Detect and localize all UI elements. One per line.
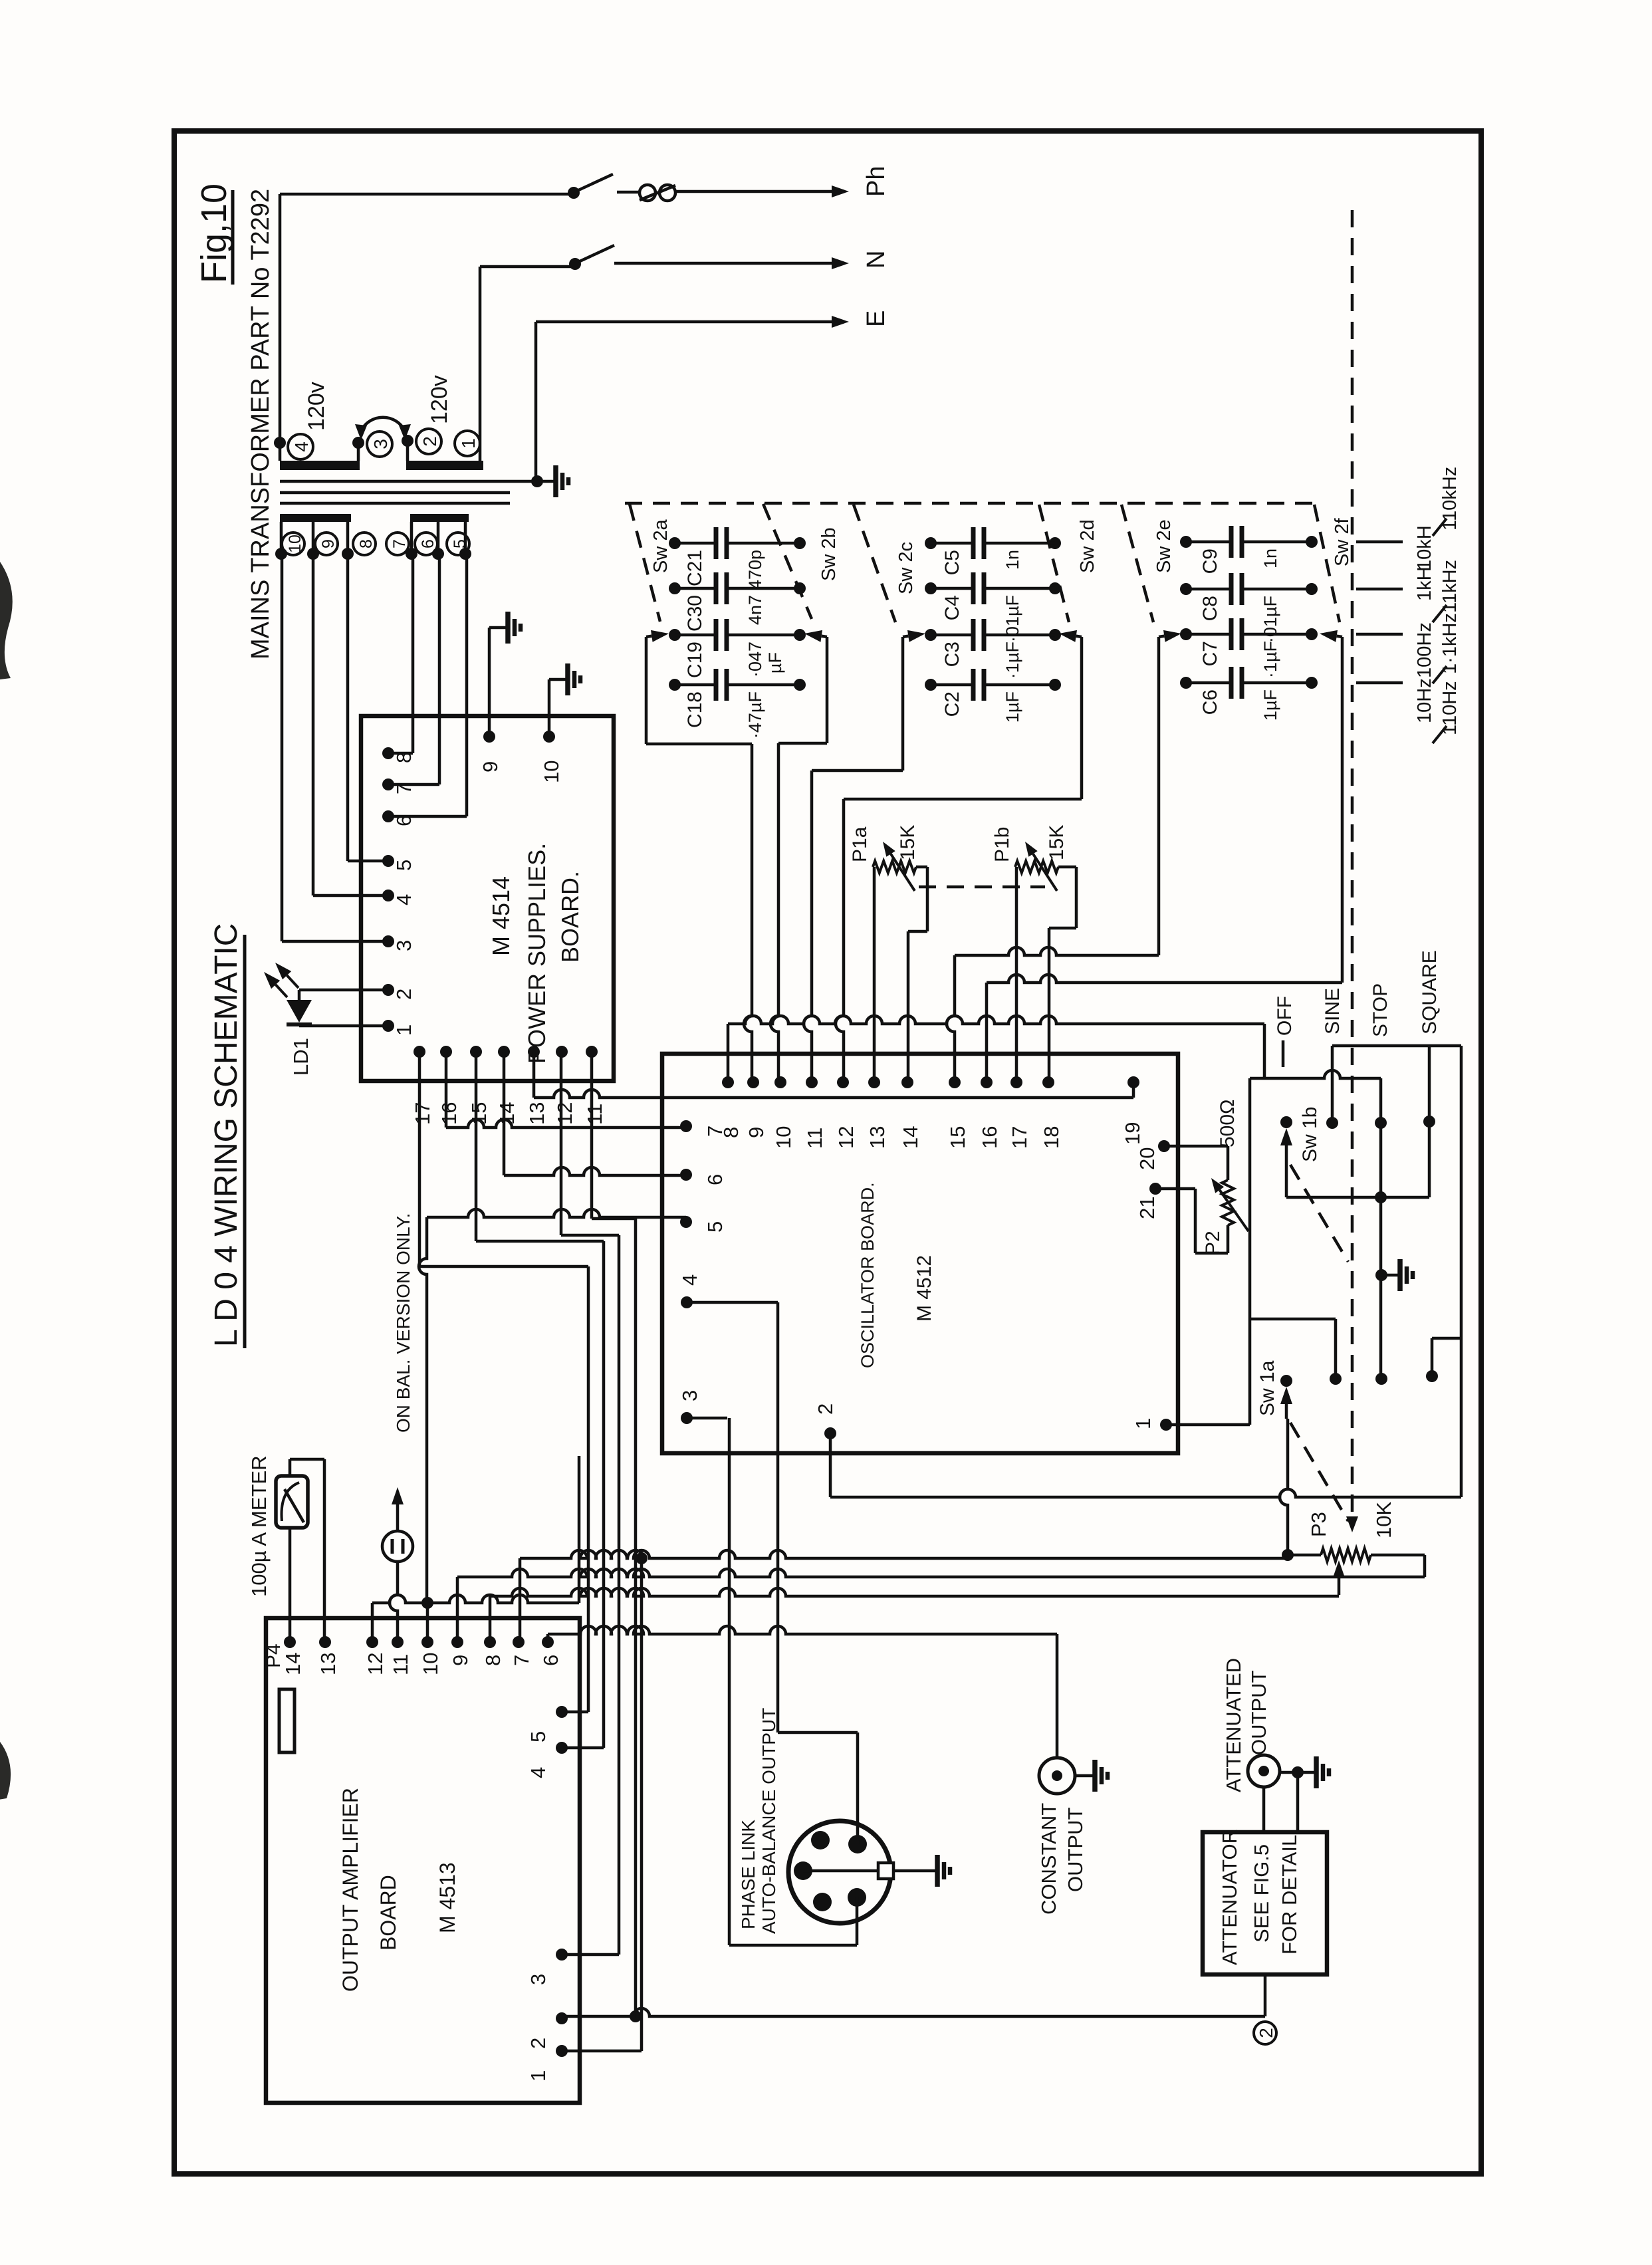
label Sw1b — [1299, 1107, 1321, 1162]
wire M4514 p17 to M4513 p5 — [419, 1052, 588, 1712]
label E — [862, 310, 890, 327]
svg-text:STOP: STOP — [1369, 983, 1391, 1037]
svg-text:µF: µF — [765, 652, 785, 673]
pin label 8 circled — [353, 533, 376, 555]
Sw2e wiper rail — [955, 637, 1159, 955]
svg-text:3: 3 — [678, 1390, 701, 1401]
DIN pin e — [848, 1888, 866, 1907]
scan artifact left edge upper — [0, 562, 13, 679]
wire bus P3 wiper to M4513 p8 — [490, 1588, 1339, 1642]
board M4514 outline — [361, 716, 614, 1081]
LED arrows — [264, 963, 298, 997]
svg-text:P3: P3 — [1307, 1512, 1330, 1537]
pin label 9 circled — [315, 533, 338, 555]
P1b wiper — [1025, 842, 1057, 891]
Sw2f wiper rail — [987, 637, 1342, 983]
label OUTPUT2 — [1247, 1671, 1270, 1756]
svg-text:ATTENUATED: ATTENUATED — [1222, 1658, 1245, 1792]
M4513 pin 6 — [539, 1636, 562, 1666]
Sw2c wiper rail — [812, 637, 903, 771]
svg-text:C9: C9 — [1199, 548, 1221, 574]
frequency slash — [1433, 519, 1447, 536]
ground at attenuated output — [1298, 1756, 1329, 1788]
M4512 pin 12 — [834, 1076, 858, 1149]
pin label 10 circled — [282, 533, 304, 555]
svg-text:MAINS TRANSFORMER PART No T: MAINS TRANSFORMER PART No T2292 — [247, 189, 275, 659]
svg-text:19: 19 — [1121, 1122, 1144, 1145]
M4514 pin 4 — [382, 890, 415, 905]
label 10kH — [1414, 525, 1435, 570]
capacitor C5 — [925, 527, 1061, 575]
wire M4513 p2 to attenuator — [562, 1974, 1265, 2016]
Sw2e wiper arrow — [1159, 630, 1181, 642]
svg-text:12: 12 — [553, 1102, 576, 1125]
transformer pin 2 — [402, 435, 413, 461]
label 1kH — [1414, 566, 1435, 601]
Sw2b wiper rail — [778, 637, 827, 743]
svg-text:2: 2 — [527, 2038, 550, 2049]
M4513 pin 9 — [449, 1636, 472, 1666]
svg-text:SQUARE: SQUARE — [1419, 950, 1441, 1034]
scan artifact left edge lower — [0, 1742, 11, 1800]
dashed linkage line Sw2-Sw1 — [1346, 210, 1358, 1532]
board M4513 outline — [266, 1618, 580, 2103]
attenuated output jack — [1248, 1755, 1280, 1787]
wire M4512 p21 to P2 wiper — [1165, 1187, 1195, 1191]
capacitor C9 — [1180, 526, 1318, 574]
svg-text:110kHz: 110kHz — [1439, 467, 1461, 531]
page border frame — [174, 131, 1481, 2174]
wire M4514 pin9 to ground — [488, 628, 491, 737]
dashed wafer line Sw2f — [1314, 505, 1340, 622]
M4512 pin 19 — [1121, 1076, 1144, 1145]
svg-text:13: 13 — [316, 1653, 340, 1675]
LED LD1 — [287, 1000, 312, 1026]
transformer pin 3 — [352, 437, 364, 461]
svg-text:4n7: 4n7 — [745, 595, 765, 625]
svg-text:Sw 2e: Sw 2e — [1153, 519, 1175, 573]
M4514 pin 10 — [540, 731, 563, 783]
Sw2f wiper arrow — [1320, 630, 1342, 642]
svg-text:OUTPUT: OUTPUT — [1064, 1808, 1087, 1893]
svg-text:C21: C21 — [684, 550, 706, 586]
pin label 1 circled — [455, 431, 480, 456]
wire bus M4513 p12 — [372, 1456, 579, 1642]
Sw2d wiper rail — [844, 637, 1082, 799]
wire bus M4513 p7 to P3 — [520, 1550, 1288, 1642]
Sw2d wiper arrow — [1059, 630, 1082, 642]
svg-text:13: 13 — [866, 1126, 889, 1149]
svg-text:17: 17 — [411, 1102, 434, 1125]
svg-text:M 4512: M 4512 — [913, 1255, 935, 1322]
M4514 pin 9 — [479, 731, 502, 773]
svg-text:1µF: 1µF — [1003, 691, 1022, 723]
dashed wafer line Sw2a — [630, 504, 660, 622]
svg-text:Sw 2a: Sw 2a — [650, 519, 671, 573]
ground near M4514 pin9 — [489, 612, 521, 644]
svg-text:100Hz: 100Hz — [1414, 622, 1435, 678]
svg-text:2: 2 — [814, 1403, 837, 1415]
svg-text:SEE FIG.5: SEE FIG.5 — [1250, 1844, 1273, 1943]
wire M4514 p16 to M4512 p7 — [446, 1052, 686, 1128]
M4514 pin 5 — [382, 855, 415, 871]
svg-text:20: 20 — [1135, 1147, 1159, 1170]
M4514 pin 8 — [382, 747, 415, 763]
wire M4514 p12 to M4513 p3 — [561, 1052, 619, 1955]
svg-text:5: 5 — [392, 860, 415, 871]
wire M4512 p20 to P2 — [1164, 1145, 1228, 1148]
svg-text:1: 1 — [392, 1024, 415, 1036]
DIN pin d — [813, 1893, 832, 1911]
M4512 pin 11 — [803, 1076, 826, 1149]
svg-text:Sw 2d: Sw 2d — [1077, 519, 1098, 573]
M4513 pin 1 — [527, 2045, 568, 2082]
DIN key notch — [803, 1863, 919, 1879]
dashed wafer line Sw2e — [1121, 505, 1153, 622]
wire M4514 p2 to LED — [299, 990, 388, 1000]
M4513 pin 3 — [527, 1949, 568, 1985]
svg-text:·1µF: ·1µF — [1260, 641, 1280, 678]
junction attenuated ground — [1280, 1766, 1304, 1832]
board label BOARD. — [556, 871, 584, 963]
wire N arrow — [614, 257, 849, 269]
title LD04 WIRING SCHEMATIC — [209, 923, 245, 1348]
svg-text:13: 13 — [525, 1102, 548, 1125]
M4513 pin 12 — [364, 1636, 387, 1675]
svg-text:SINE: SINE — [1322, 988, 1344, 1034]
wire E arrow — [536, 316, 849, 328]
M4514 pin 11 — [583, 1046, 606, 1125]
svg-text:3: 3 — [370, 439, 391, 449]
svg-text:100µ A METER: 100µ A METER — [247, 1455, 271, 1597]
svg-text:P1a: P1a — [849, 826, 871, 862]
chassis ground at core — [537, 465, 568, 497]
svg-text:3: 3 — [392, 940, 415, 951]
M4512 pin 4 — [678, 1274, 701, 1308]
svg-text:9: 9 — [449, 1655, 472, 1666]
svg-text:120v: 120v — [427, 375, 452, 424]
frequency slash — [1433, 726, 1447, 743]
transformer secondary winding bar 10-8 — [280, 514, 351, 522]
label P1a — [849, 826, 871, 862]
svg-text:11kHz: 11kHz — [1439, 560, 1461, 613]
svg-text:120v: 120v — [304, 382, 329, 431]
svg-text:6: 6 — [539, 1655, 562, 1666]
pin label 2 circled — [416, 429, 441, 454]
wire transformer10 to M4514 p3 — [282, 554, 388, 941]
Sw2b wiper arrow — [804, 630, 827, 642]
M4512 pin 1 — [1131, 1418, 1172, 1431]
wire Sw2e to M4512 p15 — [947, 955, 955, 1082]
wire P1b left leg to M4512 p17 — [1015, 867, 1018, 1082]
svg-text:3: 3 — [527, 1974, 550, 1985]
M4514 pin 14 — [495, 1046, 519, 1125]
M4512 pin 2 — [814, 1403, 837, 1439]
wire transformer9 to M4514 p4 — [313, 554, 388, 895]
Sw2a wiper arrow — [646, 630, 669, 642]
svg-text:16: 16 — [978, 1126, 1001, 1149]
capacitor C21 — [669, 527, 806, 590]
wire M4512 p1 to Sw1b rail — [1166, 1078, 1250, 1425]
svg-text:6: 6 — [703, 1174, 727, 1185]
svg-text:10kH: 10kH — [1414, 525, 1435, 570]
board label BOARD — [376, 1875, 400, 1951]
svg-text:E: E — [862, 310, 890, 327]
svg-text:16: 16 — [437, 1102, 461, 1125]
jumper arc pins 3-2 — [355, 417, 411, 440]
label Sw2d — [1077, 519, 1098, 573]
svg-text:M 4514: M 4514 — [487, 876, 515, 956]
svg-text:500Ω: 500Ω — [1217, 1100, 1239, 1147]
label LD1 — [289, 1038, 312, 1076]
M4512 pin 9 — [745, 1076, 768, 1138]
label Sw2b — [818, 527, 840, 581]
svg-text:15K: 15K — [1046, 825, 1068, 860]
svg-text:C19: C19 — [684, 642, 706, 678]
M4512 pin 8 — [719, 1076, 743, 1138]
switch Sw1a pole — [1280, 1375, 1292, 1419]
wire transformer5 to M4514 p6 — [388, 554, 467, 816]
wire M4512 p4 to DIN — [687, 1302, 858, 1844]
wire M4513 p11 bal arrow — [390, 1487, 404, 1642]
wire Sw2b to M4512 p10 — [770, 743, 778, 1082]
svg-text:Fig,10: Fig,10 — [194, 183, 234, 283]
label 500 ohm — [1217, 1100, 1239, 1147]
svg-text:C5: C5 — [941, 550, 963, 575]
Sw1a contact 3 — [1375, 1373, 1387, 1385]
label 120v right — [427, 375, 452, 424]
M4512 pin 17 — [1008, 1076, 1031, 1149]
Sw2c wiper arrow — [903, 630, 925, 642]
label OFF — [1274, 996, 1296, 1067]
capacitor C6 — [1180, 667, 1318, 721]
wire M4514 p13 to M4512 p19 — [534, 1052, 1133, 1098]
svg-text:9: 9 — [319, 539, 338, 548]
Sw1b contact SINE — [1326, 1117, 1338, 1129]
svg-text:C6: C6 — [1199, 689, 1221, 715]
svg-text:·01µF: ·01µF — [1260, 596, 1280, 643]
pin label 3 circled — [367, 431, 392, 457]
svg-text:10: 10 — [419, 1653, 442, 1675]
M4512 pin 14 — [899, 1076, 922, 1149]
transformer pin 4 — [274, 437, 286, 461]
M4514 pin 17 — [411, 1046, 434, 1125]
svg-text:7: 7 — [703, 1126, 727, 1137]
label Sw2c — [895, 542, 917, 594]
label N — [862, 251, 890, 269]
frequency slash — [1433, 666, 1447, 683]
label SINE — [1322, 988, 1344, 1034]
P3 wiper arrow — [1333, 1560, 1345, 1595]
svg-text:M 4513: M 4513 — [435, 1862, 459, 1933]
svg-text:7: 7 — [390, 539, 409, 548]
dashed linkage Sw1b — [1290, 1165, 1348, 1262]
switch Sw1b pole — [1280, 1116, 1292, 1197]
wire meter to M4513 p14 — [289, 1528, 292, 1642]
wire Ph arrow — [675, 185, 849, 197]
capacitor C4 — [925, 572, 1061, 642]
svg-text:15K: 15K — [897, 825, 919, 860]
svg-text:10: 10 — [540, 761, 563, 783]
label AUTO-BALANCE OUTPUT — [759, 1708, 779, 1934]
transformer secondary pin 7 — [406, 522, 417, 560]
wire transformer7 to M4514 p8 — [388, 554, 413, 753]
wire P1a left leg to M4512 p13 — [873, 867, 876, 1082]
wire E from core — [531, 322, 543, 487]
svg-text:BOARD.: BOARD. — [556, 871, 584, 963]
dashed gang link P1a-P1b — [919, 886, 1045, 889]
svg-text:L D 0 4 WIRING SCHEMATIC: L D 0 4 WIRING SCHEMATIC — [209, 923, 244, 1347]
svg-text:1n: 1n — [1003, 550, 1022, 570]
svg-text:2: 2 — [1256, 2028, 1276, 2038]
label 11kHz — [1439, 560, 1461, 613]
svg-text:C30: C30 — [684, 595, 706, 632]
M4514 pin 7 — [382, 778, 415, 794]
label P1a 15K — [897, 825, 919, 860]
wire bus M4512 p8 to Sw1b STOP — [728, 1016, 1381, 1123]
label STOP — [1369, 983, 1391, 1037]
M4514 pin 15 — [467, 1046, 491, 1125]
svg-text:17: 17 — [1008, 1126, 1031, 1149]
label 10K — [1372, 1502, 1395, 1538]
switch Sw mains N — [578, 245, 614, 262]
switch Sw mains Ph — [577, 174, 613, 191]
svg-text:470p: 470p — [745, 550, 765, 590]
M4512 pin 18 — [1040, 1076, 1063, 1149]
Sw1a contact 4 — [1426, 1338, 1461, 1382]
svg-text:10Hz: 10Hz — [1414, 678, 1435, 723]
wire M4514 pin10 to ground — [548, 679, 551, 737]
svg-text:Ph: Ph — [862, 166, 890, 197]
transformer secondary pin 9 — [307, 522, 319, 560]
svg-text:C8: C8 — [1199, 596, 1221, 621]
ground at Sw1 junction — [1381, 1259, 1413, 1291]
M4514 pin 16 — [437, 1046, 461, 1125]
M4513 pin 10 — [419, 1636, 442, 1675]
pin label 7 circled — [386, 533, 409, 555]
label 110Hz — [1439, 681, 1461, 735]
svg-text:Sw 1a: Sw 1a — [1256, 1360, 1278, 1416]
label ATTENUATOR — [1218, 1829, 1241, 1965]
capacitor C18 — [669, 669, 806, 739]
Sw2a wiper rail — [646, 637, 752, 744]
DIN pin a — [811, 1831, 830, 1849]
wire Ph from pin4 — [280, 187, 580, 443]
transformer secondary pin 8 — [342, 522, 354, 560]
dashed wafer line Sw2b — [763, 504, 812, 619]
capacitor C30 — [669, 572, 806, 632]
svg-text:4: 4 — [527, 1767, 550, 1778]
label MAINS TRANSFORMER PART No T2292 — [247, 189, 275, 659]
wire Ph to fuse — [617, 191, 640, 194]
DIN socket phase link — [788, 1821, 891, 1923]
wire M4512 p5 feed — [419, 1209, 686, 1603]
pin label 6 circled — [415, 533, 437, 555]
svg-text:1µF: 1µF — [1260, 689, 1280, 721]
label P1b 15K — [1046, 825, 1068, 860]
svg-text:12: 12 — [834, 1126, 858, 1149]
svg-text:ON BAL. VERSION ONLY.: ON BAL. VERSION ONLY. — [393, 1213, 413, 1433]
svg-text:8: 8 — [481, 1655, 505, 1666]
wire transformer8 to M4514 p5 — [348, 554, 388, 861]
DIN pin b — [848, 1835, 867, 1853]
label Sw1a — [1256, 1360, 1278, 1416]
dashed wafer line Sw2d — [1039, 505, 1069, 622]
board label OUTPUT AMPLIFIER — [338, 1788, 362, 1992]
svg-text:Sw 1b: Sw 1b — [1299, 1107, 1321, 1162]
svg-text:9: 9 — [745, 1127, 768, 1138]
svg-text:OUTPUT: OUTPUT — [1247, 1671, 1270, 1756]
meter 100uA — [276, 1476, 308, 1528]
label PHASE LINK — [738, 1820, 759, 1929]
svg-text:BOARD: BOARD — [376, 1875, 400, 1951]
svg-text:CONSTANT: CONSTANT — [1037, 1803, 1060, 1915]
svg-text:1·1kHz: 1·1kHz — [1439, 613, 1461, 674]
M4513 pin 7 — [510, 1636, 533, 1666]
M4513 pin 2 — [527, 2012, 568, 2049]
wire LED to M4514 p1 — [299, 1024, 388, 1028]
svg-text:ATTENUATOR: ATTENUATOR — [1218, 1829, 1241, 1965]
label FOR DETAIL — [1278, 1835, 1301, 1955]
transformer secondary winding bar 7-5 — [410, 514, 469, 522]
potentiometer P2 500 ohm — [1195, 1146, 1234, 1253]
svg-text:11: 11 — [389, 1654, 412, 1675]
M4513 pin 4 — [527, 1742, 568, 1778]
svg-text:9: 9 — [479, 761, 502, 773]
transformer T1 primary winding bar 4-3 — [280, 461, 360, 470]
svg-text:110Hz: 110Hz — [1439, 681, 1461, 735]
wire M4512 p2 to Sw1b SINE — [830, 1046, 1461, 1497]
M4513 pin 8 — [481, 1636, 505, 1666]
wire N from winding end — [480, 258, 581, 461]
label 120v left — [304, 382, 329, 431]
svg-text:14: 14 — [281, 1653, 304, 1675]
svg-text:POWER SUPPLIES.: POWER SUPPLIES. — [523, 843, 550, 1064]
svg-text:10: 10 — [286, 535, 304, 553]
capacitor C2 — [925, 669, 1061, 723]
svg-text:8: 8 — [357, 539, 376, 548]
transformer T1 primary winding bar 2-1 — [406, 461, 483, 470]
svg-text:1n: 1n — [1260, 548, 1280, 568]
label Ph — [862, 166, 890, 197]
wire Sw2f to M4512 p16 — [985, 983, 989, 1082]
label OUTPUT — [1064, 1808, 1087, 1893]
capacitor C19 — [669, 619, 806, 678]
frequency tick — [1356, 588, 1403, 591]
DIN pin c — [794, 1861, 812, 1880]
figure label Fig.10 — [194, 183, 234, 285]
dashed linkage Sw1a — [1290, 1423, 1348, 1521]
wire Sw2a to M4512 p9 — [744, 744, 752, 1082]
wire Sw1a wiper to P3 — [1280, 1419, 1288, 1555]
wire M4513 p10 riser — [426, 1603, 429, 1642]
svg-text:OSCILLATOR BOARD.: OSCILLATOR BOARD. — [858, 1182, 878, 1368]
board label M 4512 — [913, 1255, 935, 1322]
board label POWER SUPPLIES — [523, 843, 550, 1064]
P2 wiper arrow — [1211, 1178, 1248, 1231]
wire meter to M4513 p13 — [290, 1459, 324, 1642]
wire Sw2c to M4512 p11 — [804, 771, 812, 1082]
svg-text:C2: C2 — [941, 691, 963, 717]
Sw1b contact STOP — [1375, 1117, 1387, 1129]
M4513 pin 5 — [527, 1706, 568, 1742]
M4512 pin 13 — [866, 1076, 889, 1149]
constant output jack — [1039, 1758, 1075, 1794]
M4512 pin 20 — [1135, 1140, 1170, 1170]
M4512 pin 5 — [680, 1216, 727, 1233]
ground near M4514 pin10 — [549, 663, 580, 695]
svg-text:Sw 2f: Sw 2f — [1332, 518, 1353, 566]
